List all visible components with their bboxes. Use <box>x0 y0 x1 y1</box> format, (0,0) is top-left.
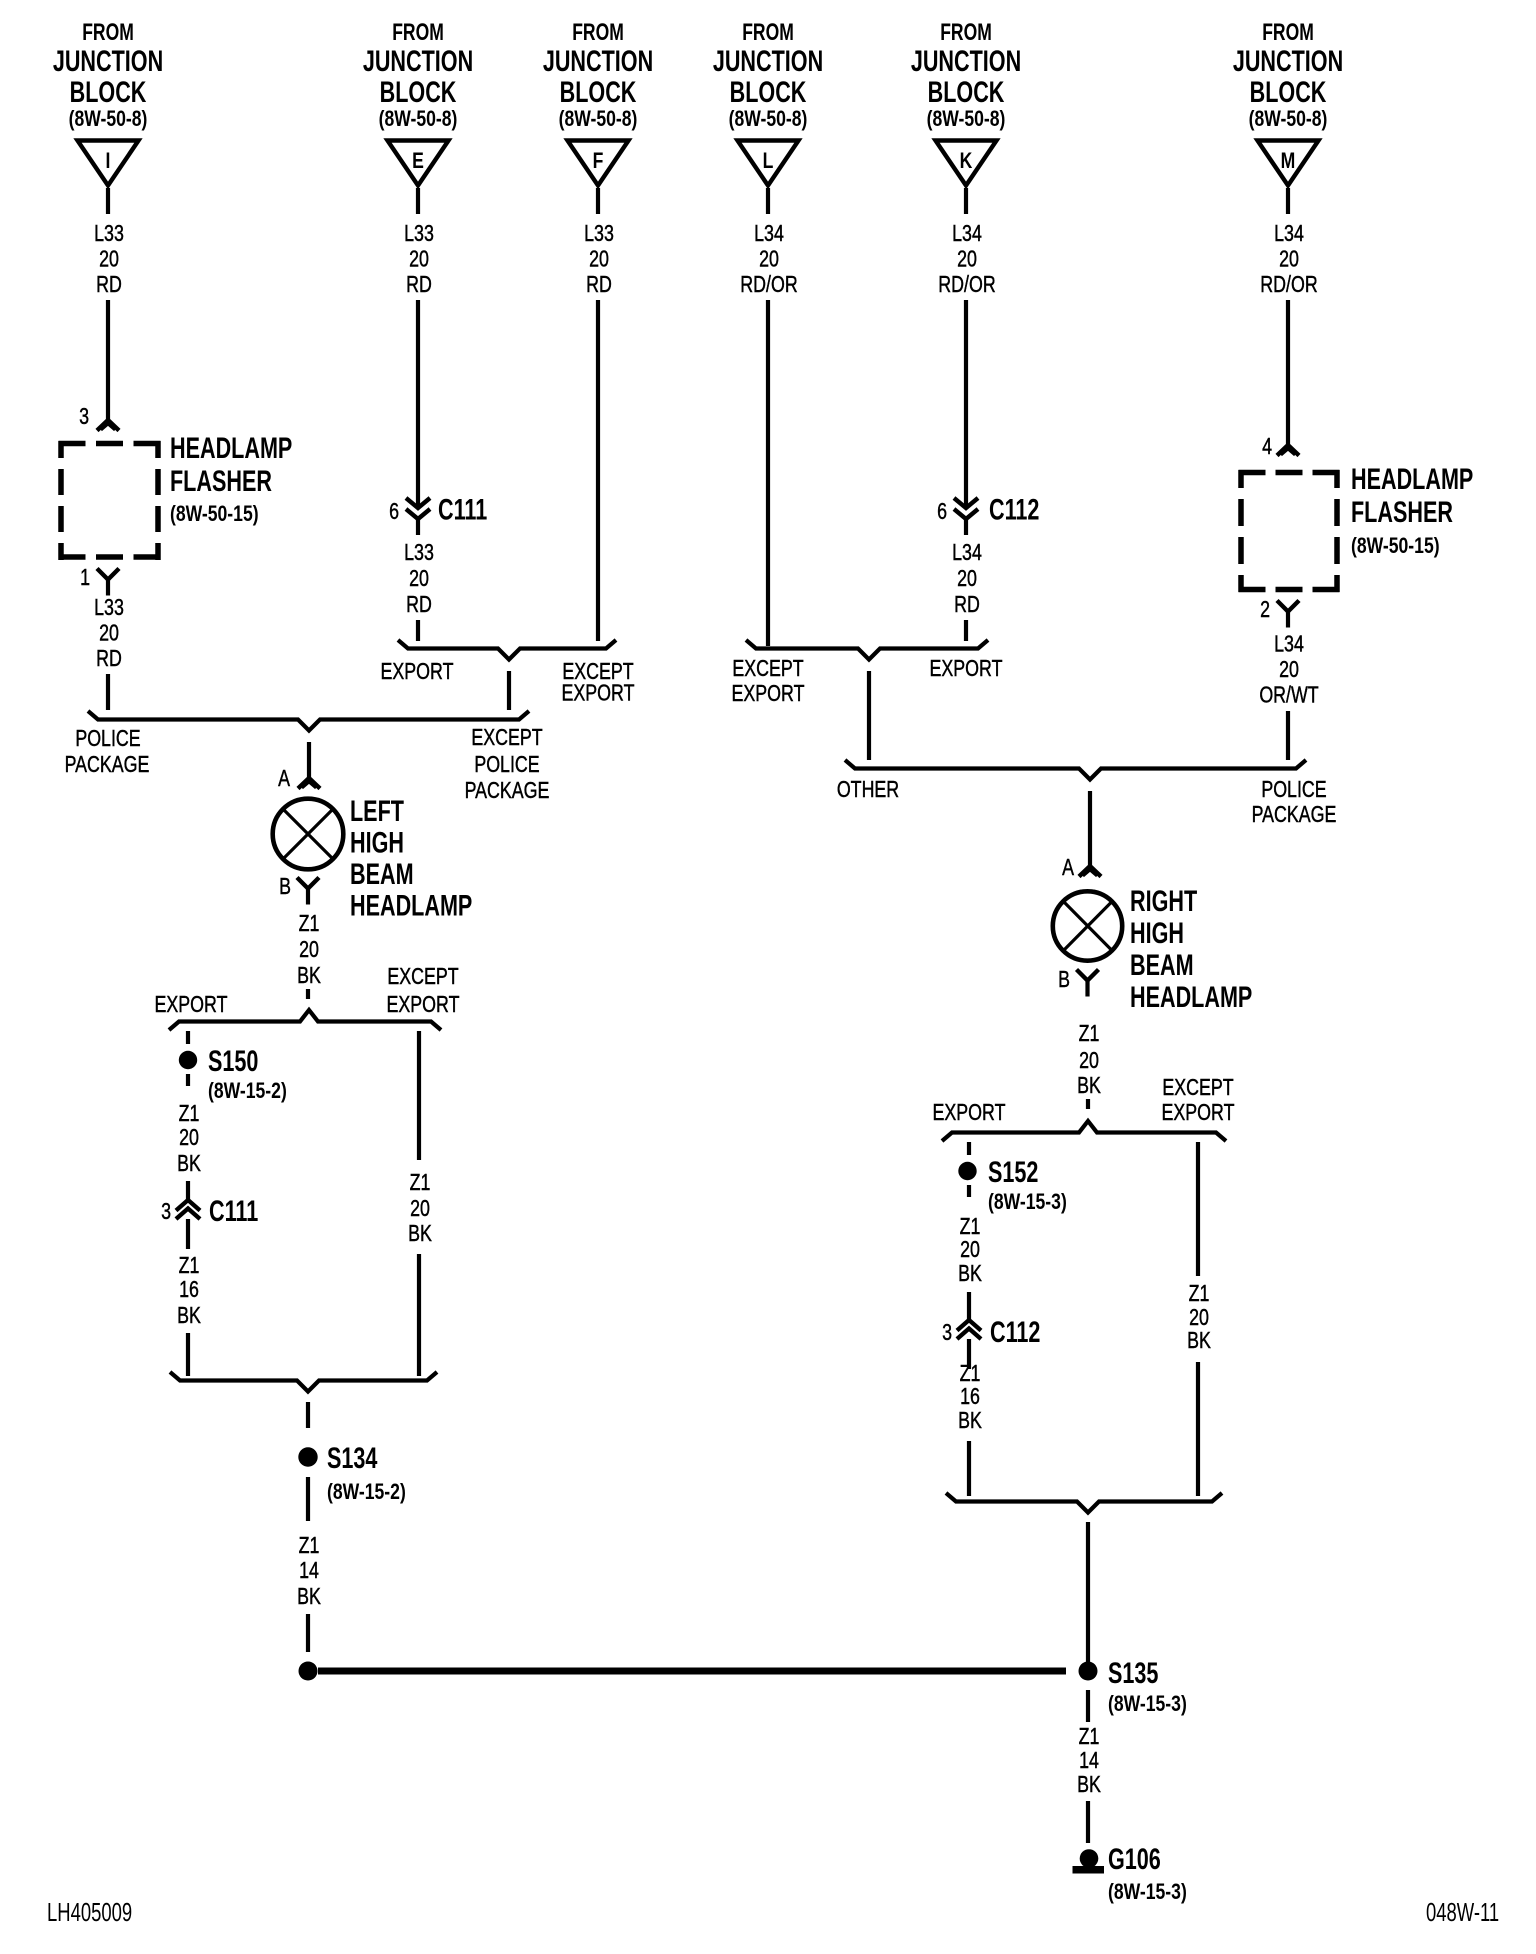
wire label L34 20 OR/WT below right flasher <box>1259 631 1319 708</box>
junction bracket merging left branches into S134 <box>170 1372 437 1392</box>
svg-text:HEADLAMP: HEADLAMP <box>1351 461 1473 495</box>
svg-text:L33: L33 <box>94 221 124 247</box>
wire label Z1 16 BK (right export branch) <box>958 1361 982 1434</box>
dashed wire below S152 <box>967 1185 971 1205</box>
svg-text:I: I <box>106 149 111 173</box>
svg-text:BLOCK: BLOCK <box>928 74 1005 108</box>
connector name C112 (lower) <box>990 1314 1040 1348</box>
svg-text:HEADLAMP: HEADLAMP <box>1130 979 1252 1013</box>
svg-text:14: 14 <box>299 1558 319 1584</box>
svg-text:L33: L33 <box>584 221 614 247</box>
condition label EXCEPT POLICE PACKAGE <box>465 725 550 804</box>
svg-text:BK: BK <box>958 1261 982 1287</box>
condition label EXCEPT EXPORT (left ground branch) <box>387 964 460 1018</box>
off-page connector triangle K from junction block (8W-50-8) <box>936 141 997 186</box>
svg-text:HEADLAMP: HEADLAMP <box>170 430 292 464</box>
connector C112 pin 3 (in-line, lower) <box>957 1320 981 1369</box>
pin number 2 (right flasher) <box>1260 597 1270 623</box>
svg-text:(8W-50-8): (8W-50-8) <box>1249 107 1328 131</box>
label S134 (8W-15-2) <box>327 1440 406 1504</box>
svg-text:POLICE: POLICE <box>1261 777 1326 803</box>
svg-text:BLOCK: BLOCK <box>1250 74 1327 108</box>
wire L34 column M down to headlamp flasher pin 4 <box>1286 300 1290 444</box>
svg-text:EXCEPT: EXCEPT <box>1162 1075 1234 1101</box>
svg-text:6: 6 <box>937 499 947 525</box>
svg-text:FROM: FROM <box>742 19 794 45</box>
svg-text:B: B <box>279 874 291 900</box>
junction bracket merging right branches into S135 <box>946 1493 1222 1513</box>
svg-text:16: 16 <box>179 1277 199 1303</box>
pin A symbol right high beam headlamp <box>1079 866 1101 877</box>
svg-text:1: 1 <box>80 565 90 591</box>
dashed wire to splice S152 <box>967 1142 971 1155</box>
svg-text:G106: G106 <box>1108 1841 1161 1875</box>
svg-text:L34: L34 <box>754 221 784 247</box>
svg-text:POLICE: POLICE <box>474 752 539 778</box>
dashed wire to splice S150 <box>186 1031 190 1045</box>
ground bus wire to S135 <box>318 1668 1066 1675</box>
svg-text:20: 20 <box>409 566 429 592</box>
off-page connector triangle M from junction block (8W-50-8) <box>1258 141 1319 186</box>
condition label POLICE PACKAGE (left) <box>65 726 150 778</box>
wire label Z1 20 BK (right export branch) <box>958 1214 982 1287</box>
svg-text:EXCEPT: EXCEPT <box>732 656 804 682</box>
svg-text:20: 20 <box>409 246 429 272</box>
svg-text:BLOCK: BLOCK <box>380 74 457 108</box>
svg-text:Z1: Z1 <box>960 1214 981 1240</box>
svg-text:S150: S150 <box>208 1043 258 1077</box>
connector C111 pin 3 (in-line, lower) <box>176 1200 200 1249</box>
svg-text:B: B <box>1058 967 1070 993</box>
svg-text:FROM: FROM <box>82 19 134 45</box>
svg-text:20: 20 <box>299 937 319 963</box>
svg-text:A: A <box>278 766 290 792</box>
svg-text:L34: L34 <box>1274 631 1304 657</box>
svg-text:A: A <box>1062 855 1074 881</box>
svg-text:EXPORT: EXPORT <box>732 681 805 707</box>
wire label L33 20 RD below flasher <box>94 595 124 672</box>
svg-text:(8W-15-2): (8W-15-2) <box>327 1480 406 1504</box>
svg-text:C112: C112 <box>989 492 1039 526</box>
wire from right pair bracket down to other bracket <box>867 671 871 760</box>
wire below S134 <box>306 1477 310 1521</box>
svg-text:048W-11: 048W-11 <box>1426 1898 1499 1927</box>
wire from C111 to merge bracket <box>186 1333 190 1376</box>
svg-text:K: K <box>960 149 973 173</box>
wire label Z1 20 BK (except export branch) <box>408 1170 432 1247</box>
wire L33 column F down to junction bracket <box>596 300 600 641</box>
split bracket EXPORT vs EXCEPT EXPORT (right lamp ground) <box>942 1121 1226 1141</box>
junction bracket merging POLICE PACKAGE and EXCEPT POLICE PACKAGE <box>88 711 529 731</box>
svg-text:L34: L34 <box>952 540 982 566</box>
svg-text:20: 20 <box>1279 657 1299 683</box>
wire stub below triangle F <box>596 188 600 214</box>
svg-text:BEAM: BEAM <box>350 856 414 890</box>
svg-text:L33: L33 <box>94 595 124 621</box>
svg-text:EXPORT: EXPORT <box>930 656 1003 682</box>
svg-text:6: 6 <box>389 499 399 525</box>
pin 2 symbol headlamp flasher (right) <box>1277 601 1299 628</box>
svg-text:EXPORT: EXPORT <box>1162 1100 1235 1126</box>
label HEADLAMP FLASHER (8W-50-15) right <box>1351 461 1473 558</box>
svg-text:RD: RD <box>954 592 980 618</box>
svg-text:L33: L33 <box>404 540 434 566</box>
svg-text:3: 3 <box>942 1320 952 1346</box>
svg-text:20: 20 <box>1279 246 1299 272</box>
svg-text:20: 20 <box>99 246 119 272</box>
svg-text:Z1: Z1 <box>410 1170 431 1196</box>
wire label Z1 20 BK (right except export) <box>1187 1281 1211 1354</box>
svg-text:PACKAGE: PACKAGE <box>65 752 150 778</box>
svg-text:RD: RD <box>406 592 432 618</box>
off-page connector triangle I from junction block (8W-50-8) <box>78 141 139 186</box>
svg-text:(8W-50-8): (8W-50-8) <box>729 107 808 131</box>
junction bracket merging EXPORT and EXCEPT EXPORT (left pair) <box>398 640 616 660</box>
svg-text:RD/OR: RD/OR <box>1260 272 1317 298</box>
wire stub below triangle E <box>416 188 420 214</box>
wire L34 column K down to connector C112 <box>964 300 968 507</box>
connector C112 pin 6 (in-line, top) <box>954 498 978 535</box>
dashed wire stub into right split bracket <box>1086 1099 1090 1113</box>
svg-text:(8W-50-8): (8W-50-8) <box>69 107 148 131</box>
wire from bracket to except-police bracket <box>507 671 511 710</box>
svg-text:OTHER: OTHER <box>837 777 899 803</box>
junction block feed header column L <box>713 19 823 131</box>
svg-text:L33: L33 <box>404 221 434 247</box>
svg-text:RD/OR: RD/OR <box>938 272 995 298</box>
wire to connector C111 pin 3 <box>186 1181 190 1199</box>
junction block feed header column I <box>53 19 163 131</box>
wire to ground G106 <box>1086 1801 1090 1843</box>
wire L34 column L down to junction bracket <box>766 300 770 646</box>
svg-text:Z1: Z1 <box>1079 1021 1100 1047</box>
pin number 3 (left flasher) <box>79 404 89 430</box>
connector name C111 (lower) <box>209 1193 258 1227</box>
pin number 3 at lower C112 <box>942 1320 952 1346</box>
svg-text:JUNCTION: JUNCTION <box>543 43 653 77</box>
splice S135 <box>1079 1662 1098 1681</box>
splice S152 <box>958 1162 976 1180</box>
svg-text:RD: RD <box>586 272 612 298</box>
wire stub below triangle M <box>1286 188 1290 214</box>
svg-text:3: 3 <box>161 1199 171 1225</box>
label G106 (8W-15-3) <box>1108 1841 1187 1904</box>
label S150 (8W-15-2) <box>208 1043 287 1103</box>
svg-text:LEFT: LEFT <box>350 793 404 827</box>
wire label L34 20 RD/OR column L <box>740 221 797 298</box>
headlamp flasher component box (right, dashed) <box>1239 470 1340 592</box>
off-page connector triangle E from junction block (8W-50-8) <box>388 141 449 186</box>
svg-text:BK: BK <box>1077 1073 1101 1099</box>
svg-text:C111: C111 <box>438 492 487 526</box>
junction node on ground bus (left) <box>299 1662 318 1681</box>
svg-text:BLOCK: BLOCK <box>560 74 637 108</box>
wire from bracket to splice S134 <box>306 1402 310 1428</box>
pin number 3 at lower C111 <box>161 1199 171 1225</box>
wire from other bracket to right high beam headlamp pin A <box>1088 791 1092 865</box>
condition label OTHER <box>837 777 899 803</box>
condition label POLICE PACKAGE (right) <box>1252 777 1337 828</box>
wire label L34 20 RD below C112 <box>952 540 982 618</box>
svg-text:LH405009: LH405009 <box>47 1898 132 1927</box>
pin number 4 (right flasher) <box>1262 434 1272 460</box>
condition label EXPORT (left ground branch) <box>155 992 228 1018</box>
svg-text:OR/WT: OR/WT <box>1259 682 1319 708</box>
dashed wire below S150 <box>186 1074 190 1094</box>
wire L34 OR/WT from right flasher to police bracket <box>1286 711 1290 760</box>
svg-text:Z1: Z1 <box>179 1253 200 1279</box>
label RIGHT HIGH BEAM HEADLAMP <box>1130 883 1252 1013</box>
sheet code 048W-11 <box>1426 1898 1499 1927</box>
svg-text:20: 20 <box>1079 1048 1099 1074</box>
wire right except-export branch upper <box>1196 1142 1200 1276</box>
svg-text:14: 14 <box>1079 1748 1099 1774</box>
svg-text:S134: S134 <box>327 1440 378 1474</box>
wire below S135 <box>1086 1690 1090 1722</box>
wire label L33 20 RD below C111 <box>404 540 434 618</box>
svg-text:(8W-50-15): (8W-50-15) <box>170 502 259 526</box>
svg-text:JUNCTION: JUNCTION <box>53 43 163 77</box>
svg-text:(8W-50-8): (8W-50-8) <box>927 107 1006 131</box>
svg-text:L: L <box>763 149 774 173</box>
wire to ground bus junction <box>306 1614 310 1652</box>
pin A symbol left high beam headlamp <box>298 778 320 789</box>
svg-text:EXPORT: EXPORT <box>562 680 635 706</box>
wire label Z1 20 BK below left lamp <box>297 911 321 989</box>
svg-text:L34: L34 <box>1274 221 1304 247</box>
svg-text:(8W-50-15): (8W-50-15) <box>1351 534 1440 558</box>
svg-text:JUNCTION: JUNCTION <box>1233 43 1343 77</box>
wire L33 column I down to headlamp flasher pin 3 <box>106 300 110 419</box>
svg-text:(8W-50-8): (8W-50-8) <box>559 107 638 131</box>
junction block feed header column F <box>543 19 653 131</box>
svg-text:EXPORT: EXPORT <box>381 659 454 685</box>
junction block feed header column E <box>363 19 473 131</box>
svg-text:20: 20 <box>179 1125 199 1151</box>
svg-text:20: 20 <box>957 246 977 272</box>
sheet code LH405009 <box>47 1898 132 1927</box>
junction block feed header column M <box>1233 19 1343 131</box>
svg-text:PACKAGE: PACKAGE <box>1252 802 1337 828</box>
wire stub below triangle L <box>766 188 770 214</box>
condition label EXCEPT EXPORT (right ground branch) <box>1162 1075 1235 1126</box>
wire L33 RD from flasher to police-package bracket <box>106 674 110 710</box>
svg-text:BLOCK: BLOCK <box>730 74 807 108</box>
svg-text:EXPORT: EXPORT <box>155 992 228 1018</box>
wire stub below triangle I <box>106 188 110 214</box>
svg-text:BK: BK <box>177 1303 201 1329</box>
svg-text:BK: BK <box>958 1408 982 1434</box>
svg-text:FROM: FROM <box>572 19 624 45</box>
condition label EXCEPT EXPORT (column L branch) <box>732 656 805 707</box>
svg-text:HEADLAMP: HEADLAMP <box>350 888 472 922</box>
connector name C111 (top) <box>438 492 487 526</box>
wire label Z1 16 BK (export branch) <box>177 1253 201 1329</box>
svg-text:RIGHT: RIGHT <box>1130 883 1197 917</box>
svg-text:20: 20 <box>1189 1305 1209 1331</box>
svg-text:EXCEPT: EXCEPT <box>471 725 543 751</box>
svg-text:JUNCTION: JUNCTION <box>363 43 473 77</box>
wire label Z1 14 BK (left ground feed) <box>297 1533 321 1610</box>
wire from police bracket to left high beam headlamp pin A <box>307 742 311 777</box>
svg-text:BK: BK <box>408 1221 432 1247</box>
svg-text:E: E <box>412 149 424 173</box>
svg-text:RD: RD <box>406 272 432 298</box>
wire from bracket to splice S135 <box>1086 1522 1090 1662</box>
label S135 (8W-15-3) <box>1108 1655 1187 1716</box>
svg-text:C111: C111 <box>209 1193 258 1227</box>
svg-text:BK: BK <box>297 1584 321 1610</box>
svg-text:Z1: Z1 <box>1189 1281 1210 1307</box>
wire label L34 20 RD/OR column K <box>938 221 995 298</box>
condition label EXPORT (under C111 branch) <box>381 659 454 685</box>
ground G106 symbol <box>1073 1849 1105 1873</box>
svg-text:Z1: Z1 <box>179 1101 200 1127</box>
svg-text:FROM: FROM <box>1262 19 1314 45</box>
svg-text:HIGH: HIGH <box>1130 915 1184 949</box>
wire label L33 20 RD column F <box>584 221 614 298</box>
svg-text:20: 20 <box>99 620 119 646</box>
svg-text:16: 16 <box>960 1384 980 1410</box>
right high beam headlamp bulb symbol <box>1053 891 1122 960</box>
svg-text:BEAM: BEAM <box>1130 947 1194 981</box>
splice S150 <box>179 1051 197 1069</box>
svg-text:BLOCK: BLOCK <box>70 74 147 108</box>
off-page connector triangle L from junction block (8W-50-8) <box>738 141 799 186</box>
svg-text:RD: RD <box>96 272 122 298</box>
wire label L34 20 RD/OR column M <box>1260 221 1317 298</box>
svg-text:BK: BK <box>1187 1328 1211 1354</box>
pin 4 symbol headlamp flasher (right) <box>1277 445 1299 456</box>
wire L33 column E down to connector C111 <box>416 300 420 507</box>
svg-text:FROM: FROM <box>392 19 444 45</box>
pin B symbol right high beam headlamp <box>1077 970 1099 997</box>
svg-text:(8W-15-3): (8W-15-3) <box>1108 1880 1187 1904</box>
condition label EXPORT (column K branch) <box>930 656 1003 682</box>
wire label L33 20 RD column I <box>94 221 124 298</box>
wire stub from C112 to export bracket <box>964 620 968 641</box>
svg-text:S152: S152 <box>988 1154 1038 1188</box>
svg-text:EXPORT: EXPORT <box>387 992 460 1018</box>
svg-text:BK: BK <box>297 963 321 989</box>
svg-text:JUNCTION: JUNCTION <box>713 43 823 77</box>
wire to connector C112 pin 3 <box>967 1292 971 1319</box>
wire stub from C111 to export bracket <box>416 620 420 641</box>
pin letter B (right lamp) <box>1058 967 1070 993</box>
wire from C112 to right merge bracket <box>967 1441 971 1496</box>
junction block feed header column K <box>911 19 1021 131</box>
svg-text:L34: L34 <box>952 221 982 247</box>
junction bracket merging EXCEPT EXPORT and EXPORT (right pair) <box>746 640 988 660</box>
svg-text:POLICE: POLICE <box>75 726 140 752</box>
pin B symbol left high beam headlamp <box>297 878 319 905</box>
pin 3 symbol headlamp flasher (left) <box>97 420 119 431</box>
pin letter B (left lamp) <box>279 874 291 900</box>
wire except-export branch upper <box>417 1031 421 1160</box>
svg-text:Z1: Z1 <box>299 1533 320 1559</box>
svg-text:BK: BK <box>177 1151 201 1177</box>
svg-text:2: 2 <box>1260 597 1270 623</box>
wire label Z1 14 BK (ground drop) <box>1077 1724 1101 1798</box>
pin number 6 at C111 <box>389 499 399 525</box>
svg-text:(8W-15-3): (8W-15-3) <box>1108 1692 1187 1716</box>
svg-text:Z1: Z1 <box>299 911 320 937</box>
dashed wire stub into left split bracket <box>306 989 310 1003</box>
wire label Z1 20 BK below right lamp <box>1077 1021 1101 1099</box>
label HEADLAMP FLASHER (8W-50-15) left <box>170 430 292 526</box>
svg-text:S135: S135 <box>1108 1655 1158 1689</box>
label S152 (8W-15-3) <box>988 1154 1067 1214</box>
svg-text:FLASHER: FLASHER <box>1351 494 1453 528</box>
svg-text:RD/OR: RD/OR <box>740 272 797 298</box>
svg-text:F: F <box>593 149 604 173</box>
split bracket EXPORT vs EXCEPT EXPORT (left lamp ground) <box>169 1010 441 1030</box>
pin 1 symbol headlamp flasher (left) <box>97 569 119 596</box>
svg-text:(8W-15-3): (8W-15-3) <box>988 1190 1067 1214</box>
svg-text:EXPORT: EXPORT <box>933 1100 1006 1126</box>
wire right except-export branch lower <box>1196 1362 1200 1496</box>
pin letter A (left lamp) <box>278 766 290 792</box>
connector C111 pin 6 (in-line, top) <box>406 498 430 535</box>
off-page connector triangle F from junction block (8W-50-8) <box>568 141 629 186</box>
svg-text:C112: C112 <box>990 1314 1040 1348</box>
svg-text:EXCEPT: EXCEPT <box>387 964 459 990</box>
svg-text:20: 20 <box>960 1237 980 1263</box>
svg-text:BK: BK <box>1077 1772 1101 1798</box>
wire stub below triangle K <box>964 188 968 214</box>
svg-text:20: 20 <box>589 246 609 272</box>
svg-text:RD: RD <box>96 646 122 672</box>
svg-text:HIGH: HIGH <box>350 825 404 859</box>
svg-text:FROM: FROM <box>940 19 992 45</box>
svg-text:(8W-50-8): (8W-50-8) <box>379 107 458 131</box>
junction bracket merging OTHER and POLICE PACKAGE <box>845 760 1306 780</box>
svg-text:20: 20 <box>410 1196 430 1222</box>
svg-text:3: 3 <box>79 404 89 430</box>
svg-text:JUNCTION: JUNCTION <box>911 43 1021 77</box>
splice S134 <box>298 1447 317 1466</box>
svg-text:20: 20 <box>759 246 779 272</box>
svg-text:20: 20 <box>957 566 977 592</box>
pin number 6 at C112 <box>937 499 947 525</box>
pin letter A (right lamp) <box>1062 855 1074 881</box>
svg-text:Z1: Z1 <box>1079 1724 1100 1750</box>
wire label L33 20 RD column E <box>404 221 434 298</box>
pin number 1 (left flasher) <box>80 565 90 591</box>
wire label Z1 20 BK (export branch) <box>177 1101 201 1177</box>
condition label EXCEPT EXPORT (column F branch) <box>562 659 635 706</box>
svg-text:Z1: Z1 <box>960 1361 981 1387</box>
wire except-export branch lower <box>417 1254 421 1376</box>
label LEFT HIGH BEAM HEADLAMP <box>350 793 472 922</box>
svg-text:(8W-15-2): (8W-15-2) <box>208 1079 287 1103</box>
svg-text:4: 4 <box>1262 434 1272 460</box>
left high beam headlamp bulb symbol <box>273 799 344 870</box>
condition label EXPORT (right ground branch) <box>933 1100 1006 1126</box>
headlamp flasher component box (left, dashed) <box>59 441 161 560</box>
svg-text:M: M <box>1281 149 1296 173</box>
svg-text:FLASHER: FLASHER <box>170 463 272 497</box>
connector name C112 (top) <box>989 492 1039 526</box>
svg-text:PACKAGE: PACKAGE <box>465 778 550 804</box>
